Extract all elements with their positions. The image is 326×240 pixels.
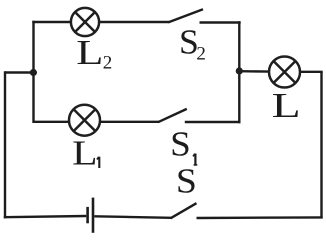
label S xyxy=(176,162,197,200)
wire right rail upper xyxy=(238,21,240,123)
label S2 xyxy=(179,22,206,65)
battery B1 xyxy=(88,198,93,233)
label S1 xyxy=(170,124,197,165)
wire bottom left segment xyxy=(4,216,87,217)
node A junction dot xyxy=(30,69,37,76)
label L1 xyxy=(72,134,99,172)
label L2 xyxy=(76,33,112,74)
wire far right rail xyxy=(320,72,322,219)
node B junction dot xyxy=(236,67,243,74)
wire outer left rail xyxy=(4,71,6,218)
lamp L1 xyxy=(69,105,100,136)
wire battery to switch S xyxy=(94,216,171,218)
svg-text:L: L xyxy=(72,134,97,172)
svg-text:L: L xyxy=(76,33,103,72)
label L xyxy=(272,87,301,126)
wire S2 contact segment xyxy=(200,21,241,23)
wire S1 contact segment xyxy=(185,121,241,123)
svg-text:2: 2 xyxy=(196,44,206,65)
svg-text:S: S xyxy=(170,124,191,163)
wire junction stub xyxy=(5,71,34,73)
wire node B to lamp L xyxy=(240,70,271,73)
svg-text:L: L xyxy=(272,87,301,126)
wire top branch horizontal xyxy=(32,21,169,23)
switch S1 lever xyxy=(158,109,187,122)
lamp L2 xyxy=(71,8,99,36)
wire middle branch horizontal xyxy=(34,121,160,123)
wire inner left rail xyxy=(32,21,34,123)
svg-text:S: S xyxy=(176,162,197,200)
lamp L xyxy=(269,57,300,88)
switch S2 lever xyxy=(168,9,203,22)
switch S lever xyxy=(171,203,197,218)
svg-text:2: 2 xyxy=(103,53,113,74)
wire lamp L to right rail xyxy=(300,71,323,73)
wire bottom right segment xyxy=(197,216,323,219)
